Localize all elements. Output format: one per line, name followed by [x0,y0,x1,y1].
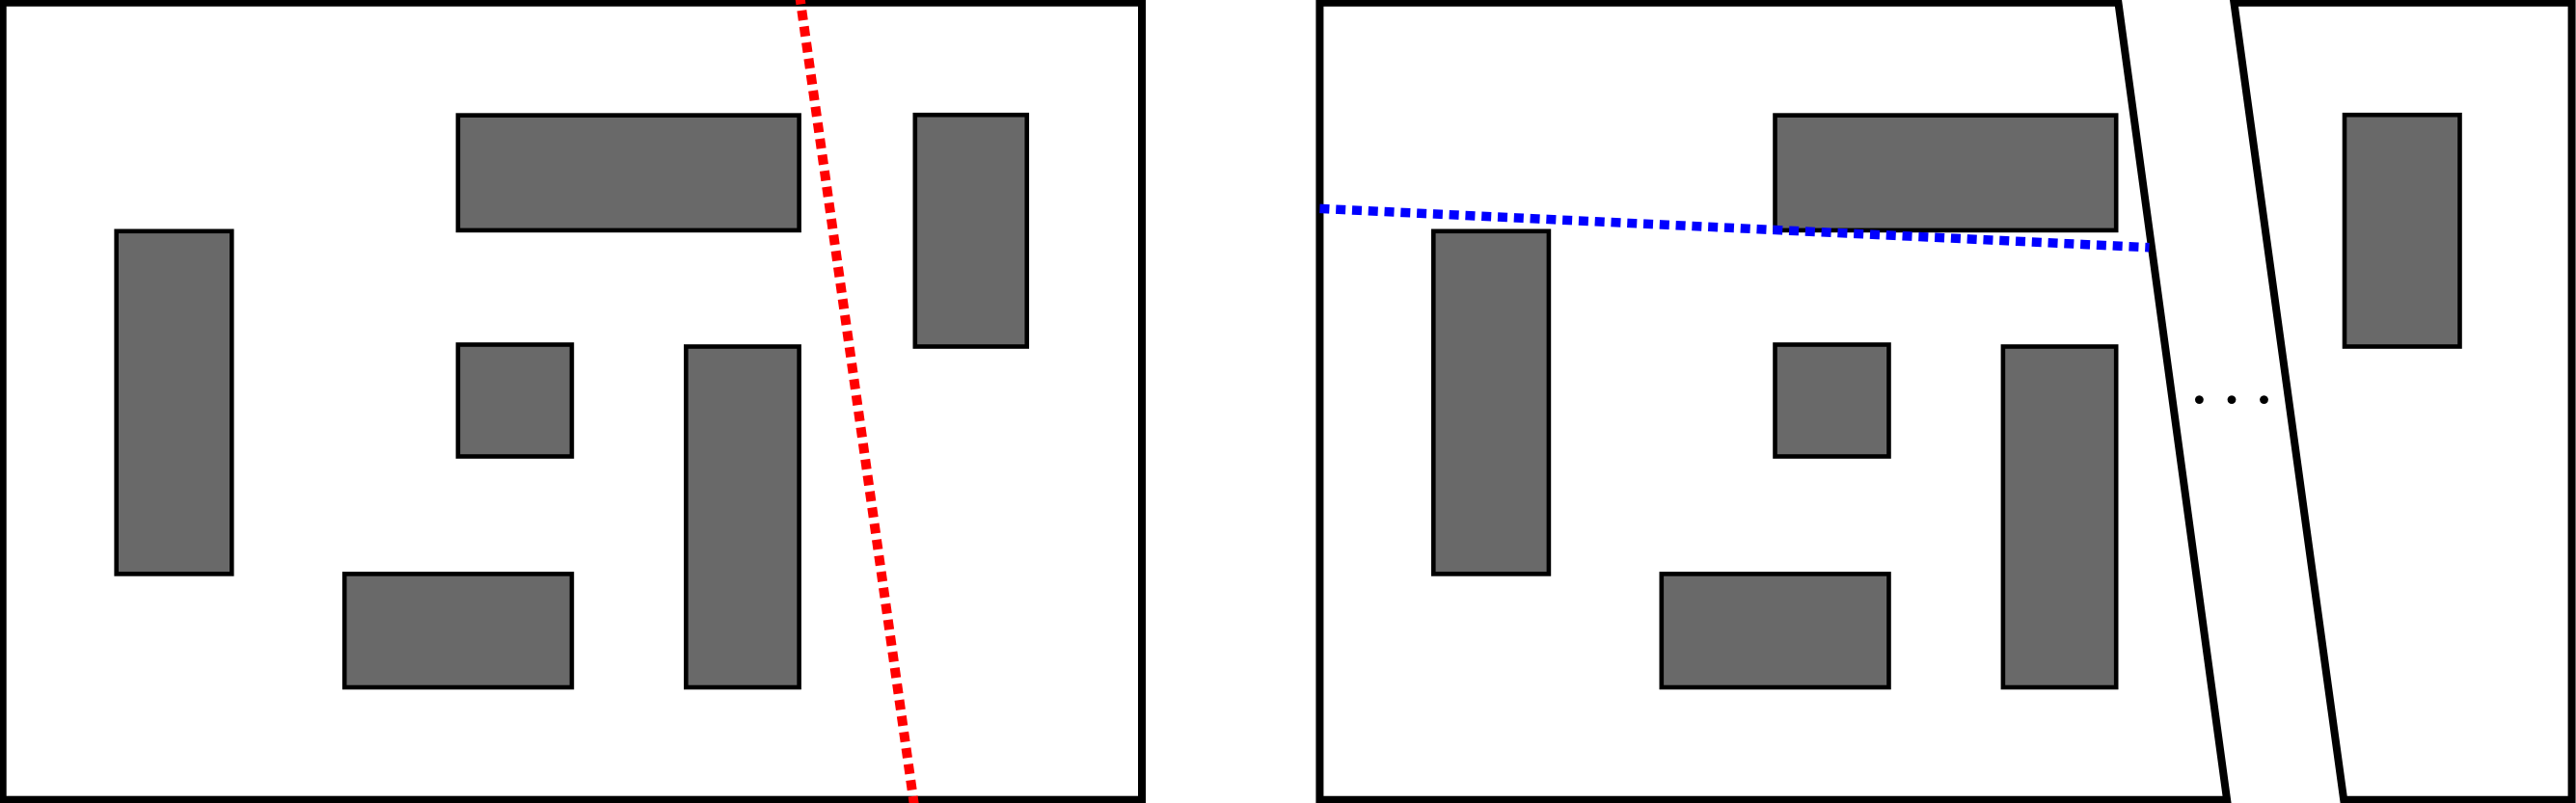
red dotted stabbing line [800,0,915,803]
panel 1 rectangle R5 (center tall) [686,347,799,688]
panel 1 rectangle R1 (left tall) [117,231,232,575]
panel 2 rectangle R2' [1776,345,1889,457]
panel 3 boundary (left edge slanted) [2234,3,2571,800]
panel 3 rectangle R6'' [2345,115,2460,346]
blue dotted stabbing line [1319,208,2149,247]
panel 2 boundary (right edge slanted) [1319,3,2227,800]
panel 1 rectangle R3 (top wide) [458,116,800,230]
panel 2 rectangle R1' [1433,231,1549,575]
panel 1 boundary box [3,3,1142,800]
panel 1 rectangle R2 (small square) [458,345,572,457]
panel 2 rectangle R5' [2003,347,2116,688]
panel 1 rectangle R4 (bottom wide) [344,574,572,687]
panel 1 rectangle R6 (right) [915,115,1027,346]
panel 2 rectangle R3' [1776,116,2117,230]
panel 2 rectangle R4' [1662,574,1889,687]
ellipsis dots between panels [2195,395,2204,404]
